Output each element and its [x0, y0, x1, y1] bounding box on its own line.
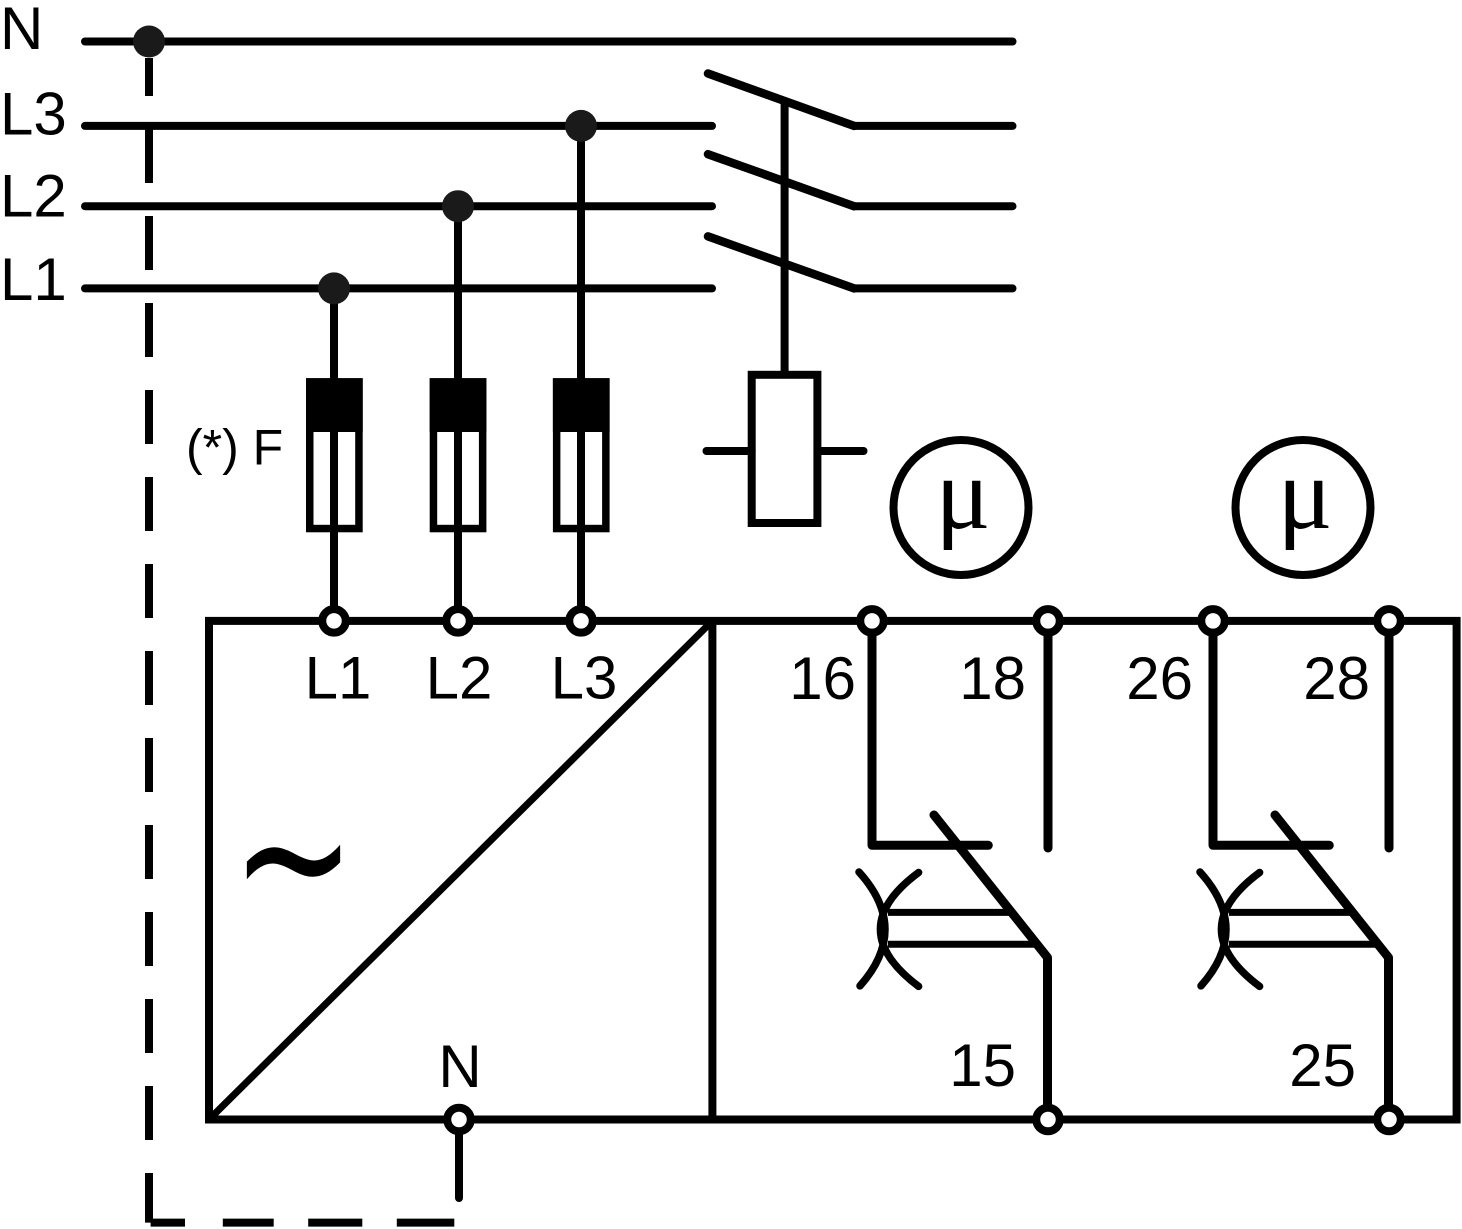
node L1 junction — [318, 272, 350, 304]
switch Q1 actuator box — [752, 375, 818, 523]
svg-text:N: N — [438, 1033, 481, 1100]
fuse F3 body — [553, 378, 610, 528]
relay contact 1 right arc — [880, 873, 918, 987]
terminal L1 — [322, 609, 346, 633]
node L3 junction — [565, 110, 597, 142]
node L2 junction — [442, 190, 474, 222]
svg-text:28: 28 — [1303, 645, 1370, 712]
relay contact 1 left arc — [859, 872, 885, 986]
wire L2 bus — [85, 202, 712, 210]
svg-text:L1: L1 — [0, 246, 67, 313]
terminal 18 — [1036, 609, 1060, 633]
relay contact 2 right arc — [1221, 873, 1259, 987]
svg-text:16: 16 — [789, 645, 856, 712]
wire L3 bus — [85, 122, 712, 130]
relay contact 2 linkage upper line — [1229, 909, 1353, 916]
svg-text:L2: L2 — [0, 163, 67, 230]
switch Q1 actuator left tick — [707, 447, 752, 455]
terminal 15 — [1036, 1108, 1060, 1132]
switch Q1 linkage bar — [781, 101, 789, 374]
fuse F1 body — [306, 378, 363, 528]
wire N bus — [85, 38, 1013, 46]
svg-text:μ: μ — [1277, 437, 1332, 551]
svg-text:15: 15 — [949, 1032, 1016, 1099]
relay contact 2 linkage lower line — [1229, 941, 1378, 948]
terminal 28 — [1377, 609, 1401, 633]
svg-text:(*) F: (*) F — [186, 420, 283, 476]
wire L1 drop through fuse F1 — [330, 288, 338, 621]
wire terminal 28 stub — [1385, 621, 1394, 848]
svg-text:18: 18 — [959, 645, 1026, 712]
switch Q1 pole 2 blade — [708, 154, 854, 206]
AC tilde symbol — [231, 747, 356, 970]
fuse F2 body — [430, 378, 487, 528]
device U1 divider — [708, 621, 716, 1120]
svg-text:26: 26 — [1126, 645, 1193, 712]
indicator mu circle 2 — [1236, 440, 1371, 575]
wire terminal 18 stub — [1044, 621, 1053, 848]
wire terminal 26 to NC contact — [1213, 621, 1329, 845]
terminal L3 — [569, 609, 593, 633]
device U1 outline box — [209, 621, 1457, 1120]
svg-text:L2: L2 — [426, 645, 493, 712]
wire terminal 16 to NC contact — [872, 621, 988, 845]
svg-text:N: N — [0, 0, 43, 62]
terminal 26 — [1201, 609, 1225, 633]
switch Q1 pole 3 blade — [708, 236, 854, 288]
svg-text:μ: μ — [935, 437, 990, 551]
switch Q1 pole 1 blade — [708, 74, 854, 126]
svg-text:25: 25 — [1289, 1032, 1356, 1099]
switch Q1 pole 3 outgoing wire — [854, 284, 1013, 292]
terminal L2 — [446, 609, 470, 633]
device U1 diagonal — [209, 621, 712, 1120]
switch Q1 actuator right tick — [817, 447, 863, 455]
switch Q1 pole 1 outgoing wire — [854, 122, 1013, 130]
terminal 25 — [1377, 1108, 1401, 1132]
relay contact 1 linkage upper line — [888, 909, 1012, 916]
wire dashed neutral drop — [145, 58, 153, 1223]
svg-text:L3: L3 — [551, 645, 618, 712]
wire L2 drop through fuse F2 — [454, 206, 462, 621]
terminal N — [447, 1108, 471, 1132]
relay contact blade 25-26 — [1275, 815, 1389, 1120]
svg-text:L1: L1 — [305, 645, 372, 712]
relay contact 1 linkage lower line — [888, 941, 1037, 948]
wire N terminal stub — [455, 1120, 463, 1199]
node N junction — [133, 26, 165, 58]
svg-text:∼: ∼ — [231, 747, 356, 970]
terminal 16 — [860, 609, 884, 633]
wire L1 bus — [85, 284, 712, 292]
relay contact blade 15-16 — [934, 815, 1048, 1120]
relay contact 2 left arc — [1200, 872, 1226, 986]
svg-text:L3: L3 — [0, 81, 67, 148]
wire L3 drop through fuse F3 — [577, 126, 585, 621]
wire dashed neutral bottom run — [151, 1219, 455, 1227]
switch Q1 pole 2 outgoing wire — [854, 202, 1013, 210]
indicator mu circle 1 — [894, 440, 1029, 575]
